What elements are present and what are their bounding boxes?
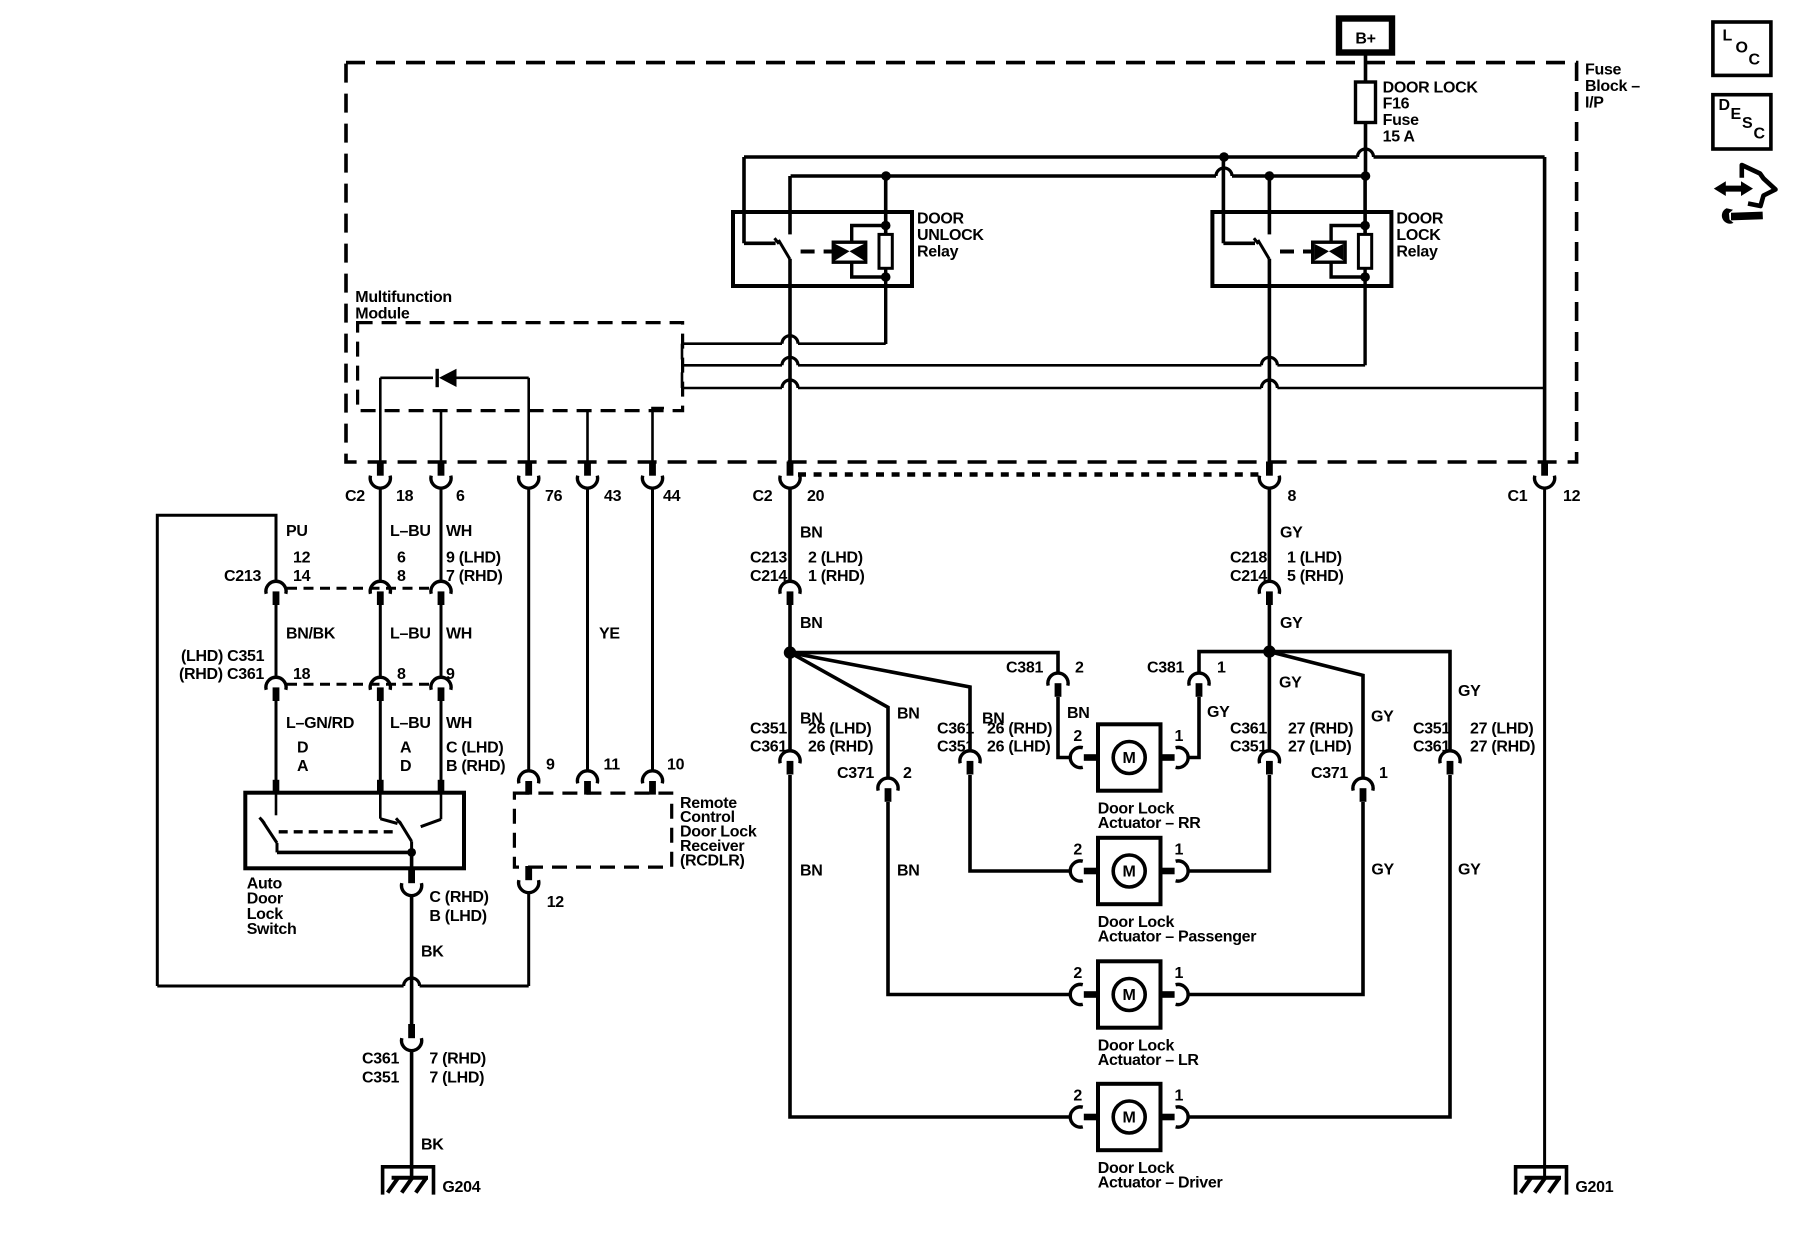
relay K1 DOOR LOCK contact tick [1254,238,1259,244]
svg-text:Multifunction: Multifunction [355,289,452,306]
svg-text:5 (RHD): 5 (RHD) [1287,568,1344,585]
wire GY to passenger pin1 [1188,775,1270,871]
battery feed B+ [1339,19,1392,53]
connector C361/C351 pin 7 [401,1024,421,1051]
svg-text:WH: WH [446,625,472,642]
svg-text:1: 1 [1379,765,1388,782]
svg-text:A: A [400,740,412,757]
fuse F16 DOOR LOCK 15A [1356,82,1376,123]
relay K1 DOOR LOCK coil wires [1331,226,1365,243]
svg-text:GY: GY [1371,709,1394,726]
connector pin 43 [577,462,597,489]
pin stub into switch [273,780,280,793]
svg-text:C361: C361 [937,720,974,737]
wire drop line5 to connector C1-12 [1543,388,1547,462]
wire GY diagonal to C371-1 [1269,652,1363,778]
svg-text:Block –: Block – [1585,78,1640,95]
svg-text:L–GN/RD: L–GN/RD [286,715,354,732]
svg-text:9 (LHD): 9 (LHD) [446,550,501,567]
svg-text:YE: YE [599,625,620,642]
motor door lock actuator LR [1070,961,1188,1027]
svg-text:M: M [1123,1110,1136,1127]
wire line3 module to unlock coil [681,344,684,360]
svg-text:8: 8 [397,568,406,585]
svg-text:2: 2 [1075,660,1084,677]
svg-text:2: 2 [903,765,912,782]
wire BN to LR actuator [888,802,1070,995]
svg-text:C361: C361 [750,739,787,756]
wire BN diagonal to C361-26 [790,653,970,751]
svg-text:2 (LHD): 2 (LHD) [808,550,863,567]
svg-text:L: L [1723,27,1733,44]
connector C351/C361 pin9 [431,677,451,701]
wire BN to driver actuator [790,775,1070,1117]
wire L-GN/RD to switch [275,701,278,780]
wire 44 to RCDLR 10 [651,489,654,771]
icon LOC box [1713,22,1771,75]
connector C213/C214 pin2/1 [780,581,800,605]
connector C351/C361 pin18 [266,677,286,701]
node relay K2 DOOR UNLOCK resistor bottom [881,272,891,282]
relay K1 DOOR LOCK switch input wire B [1268,176,1272,234]
wire BN diagonal to C371 [790,653,888,778]
svg-text:7 (RHD): 7 (RHD) [429,1051,486,1068]
wire GY pin8 down [1268,489,1272,582]
svg-text:27 (LHD): 27 (LHD) [1288,739,1351,756]
svg-text:BN: BN [897,706,920,723]
relay K2 DOOR UNLOCK resistor [879,234,892,268]
svg-text:43: 43 [604,488,622,505]
node relay K1 DOOR LOCK resistor bottom [1360,272,1370,282]
svg-text:M: M [1123,987,1136,1004]
svg-text:44: 44 [663,488,681,505]
wire GY junction left to C381-1 [1199,652,1269,673]
wire WH to switch [440,701,443,780]
wire GY down to C361-27 [1268,652,1272,751]
svg-text:(RCDLR): (RCDLR) [680,852,745,869]
svg-text:2: 2 [1073,728,1082,745]
node line1/lock-switch-feed [1219,152,1229,162]
diode inside module (pins 18-76) [380,369,528,387]
wire GY to LR pin1 [1188,802,1363,995]
svg-text:C213: C213 [750,550,787,567]
node line2/unlock-resistor [881,171,891,181]
connector pin 76 [519,462,539,489]
svg-text:26 (LHD): 26 (LHD) [808,720,871,737]
wire BN to passenger actuator [970,775,1070,871]
svg-text:C361: C361 [1230,720,1267,737]
wire BN C2-20 down [788,489,792,582]
svg-text:76: 76 [545,488,563,505]
wire BN horizontal to C381-2 [790,653,1058,673]
svg-text:(LHD) C351: (LHD) C351 [181,648,265,665]
wire BN to RR actuator [1058,697,1070,758]
svg-text:15 A: 15 A [1383,129,1416,146]
svg-text:GY: GY [1458,683,1481,700]
wire B+ to fuse [1364,53,1368,83]
svg-text:E: E [1731,106,1742,123]
wire module pin 76 [527,378,530,462]
svg-text:L–BU: L–BU [390,523,431,540]
svg-text:7 (RHD): 7 (RHD) [446,568,503,585]
node switch output [407,848,416,857]
wire module pin 18 [379,378,382,462]
svg-text:26 (RHD): 26 (RHD) [808,739,873,756]
node GY junction [1263,645,1275,657]
svg-text:LOCK: LOCK [1396,227,1441,244]
outer dashed box: Fuse Block - I/P [346,63,1577,462]
dashed gang line row2 [287,587,433,590]
node BN junction [784,646,796,658]
svg-text:6: 6 [397,550,406,567]
wire lock relay output down to pin 8 [1268,286,1272,462]
svg-text:C1: C1 [1508,488,1528,505]
relay K1 DOOR LOCK switch output wire C [1268,259,1272,286]
wire GY right to C351-27 [1269,652,1450,751]
connector RCDLR pin 12 [519,866,539,893]
wire fuse down [1364,123,1368,150]
svg-text:GY: GY [1280,525,1303,542]
svg-text:BK: BK [421,1137,444,1154]
svg-text:27 (RHD): 27 (RHD) [1470,739,1535,756]
connector pin 6 [431,462,451,489]
svg-text:1: 1 [1175,842,1184,859]
svg-text:27 (LHD): 27 (LHD) [1470,720,1533,737]
relay K1 DOOR LOCK resistor wire top [1363,176,1367,234]
svg-text:I/P: I/P [1585,94,1604,111]
dotted gang line C2 connectors [798,472,1262,476]
relay K1 DOOR LOCK [1212,212,1391,286]
Multifunction Module dashed box [358,323,683,411]
connector C371 pin2 [878,778,898,802]
relay K1 DOOR LOCK coil [1313,242,1345,262]
svg-text:BN: BN [800,525,823,542]
relay K2 DOOR UNLOCK coil [833,242,865,262]
svg-text:Fuse: Fuse [1383,112,1420,129]
RCDLR dashed box [514,793,671,867]
svg-text:C361: C361 [1413,739,1450,756]
svg-text:C361: C361 [362,1051,399,1068]
svg-text:DOOR LOCK: DOOR LOCK [1383,79,1479,96]
connector C351/C361 pin27 right [1440,751,1460,775]
connector C351/C361 pin26 left [780,751,800,775]
wire [682,364,782,367]
connector C351/C361 pin8 [370,677,390,701]
connector pin C1-12 [1535,462,1555,489]
svg-text:L–BU: L–BU [390,715,431,732]
svg-text:12: 12 [1563,488,1581,505]
node relay K2 DOOR UNLOCK resistor top [881,221,891,231]
motor door lock actuator passenger [1070,838,1188,904]
svg-text:C381: C381 [1147,660,1184,677]
svg-text:10: 10 [667,756,685,773]
svg-text:9: 9 [446,666,455,683]
relay K1 DOOR LOCK coil dashed link [1280,250,1311,254]
svg-text:Switch: Switch [247,921,297,938]
svg-text:GY: GY [1207,704,1230,721]
wire [682,342,782,345]
wire lock resistor bottom to line4 [1363,268,1366,366]
Auto Door Lock Switch box [245,793,464,869]
motor door lock actuator RR [1070,724,1188,790]
wire BN to junction [788,605,792,653]
svg-text:GY: GY [1458,862,1481,879]
connector C213 pin14 [266,581,286,605]
svg-text:M: M [1123,864,1136,881]
wire L-BU to switch [379,701,382,780]
svg-text:C351: C351 [937,739,974,756]
svg-text:1: 1 [1175,728,1184,745]
svg-text:20: 20 [807,488,825,505]
svg-text:C213: C213 [224,568,261,585]
svg-text:B+: B+ [1355,30,1375,47]
node junction fuse/line2 [1361,171,1371,181]
svg-text:C (RHD): C (RHD) [429,889,488,906]
wire [682,387,782,390]
dashed gang line row3 [287,683,433,686]
svg-text:Actuator – Passenger: Actuator – Passenger [1098,928,1257,945]
wire line1 y=157 with hop at fuse wire [744,155,1358,159]
svg-text:C214: C214 [750,568,787,585]
wire C1-12 to ground G201 [1543,489,1546,1178]
svg-text:8: 8 [397,666,406,683]
svg-text:GY: GY [1280,615,1303,632]
connector C218/C214 pin1/5 [1259,581,1279,605]
svg-text:1: 1 [1217,660,1226,677]
svg-text:GY: GY [1279,675,1302,692]
svg-text:26 (RHD): 26 (RHD) [987,720,1052,737]
svg-text:C218: C218 [1230,550,1267,567]
svg-text:1 (LHD): 1 (LHD) [1287,550,1342,567]
svg-text:2: 2 [1073,842,1082,859]
wire unlock relay output down to C2-20 [788,286,792,462]
connector RCDLR pin 10 [642,771,662,795]
svg-text:WH: WH [446,715,472,732]
svg-text:B (RHD): B (RHD) [446,758,505,775]
svg-text:1: 1 [1175,1087,1184,1104]
motor door lock actuator driver [1070,1084,1188,1150]
wire unlock resistor bottom to line3 [884,268,887,344]
svg-text:6: 6 [456,488,465,505]
wire 6-col row1 to row2 [440,489,443,582]
relay K2 DOOR UNLOCK switch feed wire A [742,157,746,243]
relay K2 DOOR UNLOCK contact tick [775,238,780,244]
icon jump arrow with wrench [1714,165,1776,224]
svg-text:DOOR: DOOR [1396,211,1444,228]
svg-text:7 (LHD): 7 (LHD) [429,1070,484,1087]
svg-text:D: D [297,740,308,757]
wire BN junction down [788,653,792,751]
relay K2 DOOR UNLOCK [733,212,912,286]
svg-text:WH: WH [446,523,472,540]
svg-text:Actuator – LR: Actuator – LR [1098,1052,1200,1069]
wire 18-col row1 to row2 [379,489,382,582]
svg-text:C2: C2 [753,488,773,505]
wire GY to driver pin1 [1188,775,1450,1117]
connector RCDLR pin 9 [519,771,539,795]
wire GY to RR actuator pin1 [1188,697,1199,758]
svg-text:C214: C214 [1230,568,1267,585]
svg-text:BN: BN [897,863,920,880]
relay K2 DOOR UNLOCK coil dashed link [801,250,832,254]
svg-text:G204: G204 [442,1179,480,1196]
wire WH col row2 to row3 [440,605,443,677]
svg-text:PU: PU [286,523,308,540]
connector C361/C351 pin26 mid [960,751,980,775]
connector C213 pin8 [370,581,390,605]
node line2/lock-contact [1265,171,1275,181]
svg-text:12: 12 [293,550,311,567]
svg-text:C381: C381 [1006,660,1043,677]
connector C213 pin7/9 [431,581,451,605]
connector switch output C/B [401,869,421,896]
svg-text:Relay: Relay [917,243,959,260]
svg-text:1: 1 [1175,965,1184,982]
wire module pin 6 [440,411,443,462]
connector C361/C351 pin27 left [1259,751,1279,775]
ground G204 [383,1167,434,1195]
wire line2 y=176 with hop at x=1224 [791,174,1216,178]
icon DESC box [1713,95,1771,149]
wire PU loop (RCDLR 12 to C213 14) [527,892,530,986]
svg-text:C371: C371 [837,765,874,782]
svg-text:Actuator – Driver: Actuator – Driver [1098,1174,1223,1191]
svg-text:C2: C2 [345,488,365,505]
wire [157,985,403,988]
svg-text:M: M [1123,750,1136,767]
svg-text:BN/BK: BN/BK [286,625,336,642]
switch internals [260,793,442,852]
wire BK to ground [410,1051,414,1178]
svg-text:18: 18 [293,666,311,683]
svg-text:O: O [1736,39,1748,56]
svg-text:2: 2 [1073,965,1082,982]
svg-text:BN: BN [800,863,823,880]
pin stub into switch [438,780,445,793]
svg-text:26 (LHD): 26 (LHD) [987,739,1050,756]
svg-text:C371: C371 [1311,765,1348,782]
svg-text:UNLOCK: UNLOCK [917,227,984,244]
relay K2 DOOR UNLOCK coil wires [852,226,886,243]
wire LBU col row2 to row3 [379,605,382,677]
svg-text:DOOR: DOOR [917,211,965,228]
svg-text:27 (RHD): 27 (RHD) [1288,720,1353,737]
svg-text:12: 12 [547,894,565,911]
svg-text:11: 11 [604,756,621,773]
svg-text:D: D [1719,97,1730,114]
svg-text:C351: C351 [362,1070,399,1087]
svg-text:F16: F16 [1383,96,1410,113]
svg-text:C351: C351 [1413,720,1450,737]
svg-text:BN: BN [1067,705,1090,722]
relay K1 DOOR LOCK switch lever [1258,240,1269,259]
svg-text:Actuator – RR: Actuator – RR [1098,815,1202,832]
node relay K1 DOOR LOCK resistor top [1360,221,1370,231]
wire GY to junction [1268,605,1272,652]
svg-text:2: 2 [1073,1087,1082,1104]
svg-text:C (LHD): C (LHD) [446,740,503,757]
relay K1 DOOR LOCK resistor [1358,234,1371,268]
svg-text:18: 18 [396,488,414,505]
wire fuse through hop to line2 [1364,149,1368,176]
svg-text:L–BU: L–BU [390,625,431,642]
wire right drop x=1544.6 line1 to line5 [1543,157,1547,388]
wire BK down through hop [410,896,414,1024]
wire 76 to RCDLR 9 [527,489,530,771]
svg-text:BN: BN [800,615,823,632]
svg-text:B (LHD): B (LHD) [429,908,486,925]
connector pin 8 [1259,462,1279,489]
connector pin 18 [370,462,390,489]
connector C371 pin1 [1353,778,1373,802]
svg-text:9: 9 [546,756,555,773]
connector pin C2-20 [780,462,800,489]
wire module pin 43 [586,411,589,462]
svg-text:A: A [297,758,309,775]
svg-text:C: C [1754,126,1766,143]
wire PU col row2 to row3 [275,605,278,677]
connector C381 pin2 [1048,673,1068,697]
svg-text:14: 14 [293,568,311,585]
svg-text:G201: G201 [1575,1179,1613,1196]
ground G201 [1516,1167,1567,1195]
svg-text:S: S [1742,115,1753,132]
wire 43 to RCDLR 11 [586,489,589,771]
relay K1 DOOR LOCK switch feed wire A [1222,157,1226,243]
svg-text:D: D [400,758,411,775]
svg-text:Fuse: Fuse [1585,62,1622,79]
svg-text:C351: C351 [750,720,787,737]
svg-text:(RHD) C361: (RHD) C361 [179,666,264,683]
svg-text:C: C [1749,51,1761,68]
svg-text:8: 8 [1288,488,1297,505]
wire line5 module to line1 drop [681,372,684,388]
wire module pin 44 [653,408,665,462]
svg-text:1 (RHD): 1 (RHD) [808,568,865,585]
svg-text:BK: BK [421,944,444,961]
relay K2 DOOR UNLOCK resistor wire top [884,176,888,234]
connector pin 44 [642,462,662,489]
wire switch output down [410,852,414,869]
svg-text:GY: GY [1371,862,1394,879]
relay K2 DOOR UNLOCK switch input wire B [788,176,792,234]
relay K2 DOOR UNLOCK switch output wire C [788,259,792,286]
pin stub into switch [377,780,384,793]
connector RCDLR pin 11 [577,771,597,795]
relay K2 DOOR UNLOCK switch lever [779,240,790,259]
connector C381 pin1 [1189,673,1209,697]
svg-text:Module: Module [355,306,410,323]
svg-text:Relay: Relay [1396,243,1438,260]
svg-text:C351: C351 [1230,739,1267,756]
